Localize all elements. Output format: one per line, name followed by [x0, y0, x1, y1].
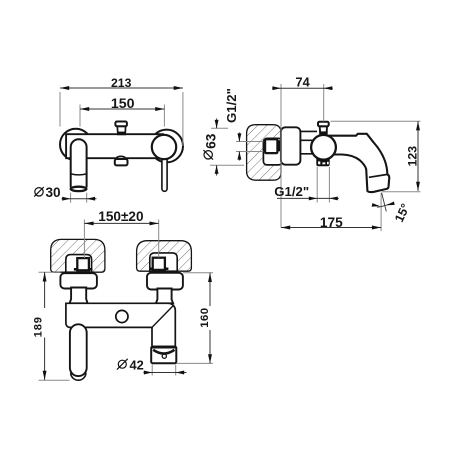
diameter symbols drawn — [34, 150, 213, 370]
svg-text:160: 160 — [199, 307, 211, 327]
svg-text:123: 123 — [405, 146, 419, 167]
dim line 189 — [44, 272, 46, 380]
spout — [327, 134, 389, 192]
svg-text:63: 63 — [203, 133, 218, 149]
right pipe shoulders — [149, 268, 153, 271]
dim line 150 — [80, 108, 164, 110]
inlet fitting — [263, 138, 282, 165]
left union cutout — [66, 255, 92, 273]
lever rod — [162, 150, 167, 191]
handle separation line — [71, 174, 87, 175]
handle bottom rim — [71, 373, 86, 380]
mixer body (side) — [281, 127, 301, 164]
diameter symbol for 42 — [118, 360, 126, 368]
dim line 160 — [209, 273, 211, 364]
15deg arc — [377, 204, 390, 207]
213 arrows — [60, 86, 69, 90]
right stem — [156, 289, 173, 304]
diverter stem base band (front) — [118, 132, 125, 135]
outlet nut (side, dark) — [316, 159, 329, 167]
dim line diam42 — [144, 372, 187, 374]
ext lines 213 — [60, 92, 183, 146]
right flange — [147, 273, 183, 290]
outlet box — [151, 347, 176, 364]
body bar — [66, 134, 164, 158]
ext lines diam30 — [71, 193, 87, 203]
dim line diam30 — [62, 198, 97, 200]
svg-text:G1/2": G1/2" — [224, 88, 239, 123]
inlet pipe rect — [265, 139, 277, 153]
connecting arm — [300, 131, 317, 153]
ext lines G1/2 side inlet — [236, 142, 263, 152]
dim line 175 — [281, 227, 381, 229]
plate screw — [116, 310, 128, 322]
d30 arrows (outside) — [62, 197, 70, 201]
G1/2 side arrows — [237, 133, 241, 141]
svg-text:175: 175 — [320, 215, 343, 230]
74 arrows (outside) — [272, 86, 281, 90]
diverter cap (side) — [318, 122, 329, 127]
123 arrows — [416, 121, 420, 130]
svg-text:213: 213 — [111, 76, 132, 90]
arrowheads — [43, 86, 420, 380]
150±20 arrows — [84, 221, 93, 225]
svg-text:150±20: 150±20 — [98, 209, 143, 224]
dim line 74 — [272, 87, 333, 89]
175 arrows — [281, 226, 290, 230]
outlet box top line — [151, 346, 176, 348]
outlet arc — [153, 350, 174, 354]
right inner knob circle — [152, 135, 176, 159]
diverter cap (front) — [115, 122, 127, 127]
15deg slanted line — [382, 193, 387, 212]
ext lines G1/2 bottom — [317, 167, 329, 203]
ext lines diam42 — [152, 365, 176, 376]
dim line G1/2 side — [238, 133, 240, 161]
ext lines 189 — [39, 272, 70, 380]
ext line 175 right / 15deg vertical — [380, 193, 382, 231]
ext lines 160 — [177, 273, 214, 364]
diameter symbol for 63 (rotated position) — [204, 151, 212, 159]
d63 arrows — [215, 120, 219, 128]
bottom outlet block — [115, 159, 128, 165]
G1/2 bottom arrows (outside) — [309, 196, 317, 200]
dim line 150±20 — [84, 222, 158, 224]
valve circle (side) — [311, 135, 336, 160]
svg-text:74: 74 — [296, 76, 310, 90]
189 arrows — [43, 272, 47, 281]
ext lines 123 — [331, 121, 421, 192]
diverter stem (front) — [117, 126, 125, 134]
valve centerline — [323, 84, 325, 122]
svg-text:G1/2": G1/2" — [274, 184, 309, 199]
plate diagonal seam — [152, 305, 174, 327]
right wall blob (hatched) — [137, 241, 192, 272]
diverter stem base band (side) — [319, 131, 327, 134]
outlet small circle — [162, 354, 166, 358]
150 arrows — [80, 107, 89, 111]
wall face line — [280, 84, 282, 228]
handle bottom rim — [71, 187, 87, 191]
dim line 213 — [60, 87, 183, 89]
left wall blob (hatched) — [51, 239, 105, 272]
right outer flange circle — [150, 130, 183, 163]
left flange circle — [60, 129, 92, 161]
ext lines 150 — [80, 105, 164, 127]
diverter stem (side) — [320, 126, 327, 134]
left union pipe — [77, 258, 89, 270]
inlet dark strip — [277, 140, 281, 151]
centerlines 150±20 — [84, 220, 158, 259]
svg-text:42: 42 — [129, 358, 143, 373]
wall escutcheon (hatched) — [247, 125, 281, 181]
right union pipe — [153, 258, 165, 270]
d42 arrows (outside) — [144, 371, 152, 375]
right union cutout — [150, 253, 177, 271]
svg-text:150: 150 — [111, 96, 135, 112]
15deg arrows — [372, 203, 381, 207]
left stem — [70, 288, 88, 304]
left pipe shoulders — [74, 268, 77, 271]
spout tip rim line — [369, 174, 388, 177]
160 arrows — [208, 273, 212, 282]
handle (front view) — [71, 139, 87, 187]
diameter symbol for 30 — [35, 188, 43, 196]
svg-text:189: 189 — [33, 316, 45, 337]
body plate with spout column — [66, 303, 175, 346]
dim line G1/2 bottom — [277, 197, 339, 199]
svg-text:30: 30 — [45, 185, 60, 200]
left flange — [60, 273, 97, 288]
bottom outlet dome — [117, 156, 126, 158]
ext lines diam63 — [210, 128, 244, 165]
handle (bottom view) — [70, 324, 87, 376]
dim line diam63 — [216, 119, 218, 176]
dim line 123 — [417, 121, 419, 191]
